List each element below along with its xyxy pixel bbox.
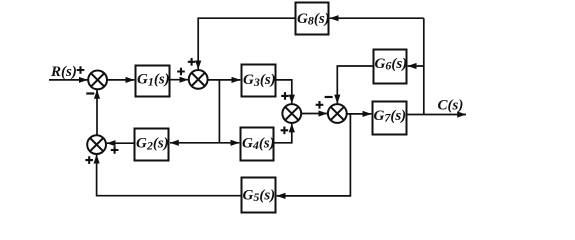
wire G1 to summing junction S2	[170, 79, 188, 81]
wire G4 output right and up into S3 bottom	[274, 124, 292, 143]
plus sign at S3 bottom input	[281, 127, 289, 135]
plus sign at S3 top input	[281, 92, 289, 100]
wire G2 to summing junction S5	[107, 142, 134, 144]
block G3	[242, 65, 276, 97]
svg-text:G4(s): G4(s)	[242, 135, 275, 152]
plus sign at S2 left input	[177, 68, 185, 76]
wire G6 output left and down into S4 top	[337, 66, 373, 103]
summing junction S2	[189, 70, 208, 89]
wire S1 to G1	[107, 79, 134, 81]
summing junction S1	[88, 71, 107, 90]
svg-text:G5(s): G5(s)	[243, 187, 276, 204]
wire branch from S2 output down to G2/G4 feed line	[218, 80, 220, 143]
summing junction S5	[87, 135, 106, 154]
summing junction S4	[328, 104, 347, 123]
block G7	[373, 102, 407, 135]
svg-text:G6(s): G6(s)	[375, 56, 408, 73]
wire S2 to G3 with branch node	[208, 79, 241, 81]
wire G3 output right and down into S3 top	[276, 80, 292, 104]
wire S4 to G7 with takeoff node	[347, 113, 372, 115]
plus sign at S4 left input	[316, 101, 324, 109]
wire G5 output left and up into S5 bottom	[97, 155, 241, 196]
svg-text:G1(s): G1(s)	[137, 72, 170, 89]
svg-text:G7(s): G7(s)	[374, 108, 407, 125]
plus sign at S5 bottom input	[85, 156, 93, 164]
plus sign at S5 right input	[111, 146, 119, 154]
wire into G6 from right	[408, 65, 424, 67]
minus sign at S1 bottom input	[86, 92, 94, 94]
wire branch feed to G4 (rightward)	[219, 142, 239, 144]
block G4	[241, 128, 274, 161]
minus sign at S4 top input	[325, 96, 333, 98]
svg-text:C(s): C(s)	[438, 98, 464, 114]
wire branch feed to G2 (leftward)	[170, 142, 219, 144]
summing junction S3	[282, 104, 301, 123]
wire S5 up into S1 bottom	[96, 90, 98, 135]
plus sign at S1 left input	[77, 66, 85, 74]
svg-text:R(s): R(s)	[50, 64, 77, 80]
wire feedback takeoff vertical from output line up to G8 level	[423, 18, 425, 114]
block G5	[242, 178, 276, 213]
wire R(s) input into summing junction S1	[49, 79, 88, 81]
wire G8 output left and down into S2 top	[198, 18, 295, 69]
wire into G8 from right	[330, 17, 424, 19]
svg-text:G2(s): G2(s)	[136, 136, 169, 153]
svg-text:G3(s): G3(s)	[243, 72, 276, 89]
wire takeoff down to G5 input	[277, 114, 351, 196]
block G2	[135, 129, 169, 161]
block G8	[296, 3, 329, 35]
wire G7 output to C(s)	[407, 114, 466, 116]
block G6	[374, 50, 407, 84]
svg-text:G8(s): G8(s)	[297, 11, 330, 28]
block G1	[136, 66, 170, 97]
plus sign at S2 top input	[188, 58, 196, 66]
wire S3 to S4	[301, 113, 327, 115]
